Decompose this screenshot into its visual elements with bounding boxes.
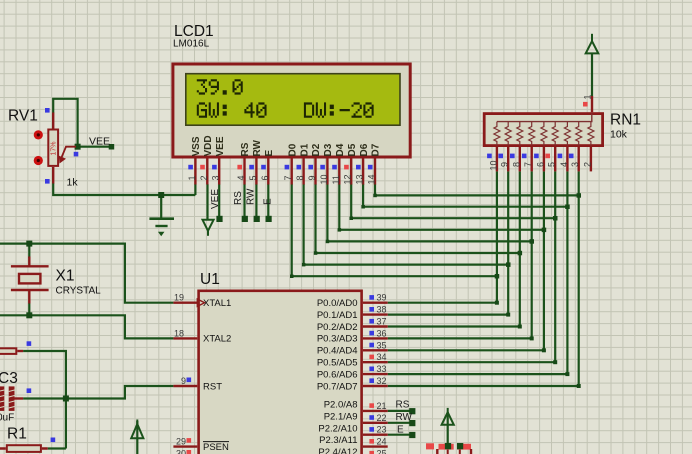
wire column RN pin8 to U1 P0.2 <box>388 171 520 326</box>
svg-text:9: 9 <box>307 175 317 180</box>
svg-text:4: 4 <box>559 162 569 167</box>
node bottom component junction 2 (over pad) <box>457 443 463 449</box>
svg-text:RS: RS <box>396 400 410 411</box>
svg-text:XTAL1: XTAL1 <box>203 298 231 309</box>
svg-text:8: 8 <box>511 162 521 167</box>
svg-text:XTAL2: XTAL2 <box>203 334 231 345</box>
U1 pin9 state square <box>187 378 192 383</box>
node staircase junction D1 <box>506 262 511 267</box>
node terminal E at U1 P2.2 <box>409 432 415 438</box>
wire column RN pin6 to U1 P0.4 <box>388 171 544 350</box>
node P0.7 corner <box>577 384 581 388</box>
svg-text:R1: R1 <box>7 426 27 443</box>
wire D7 LCD pin14 to column RN pin3 <box>375 184 579 195</box>
node staircase junction D0 <box>495 274 500 279</box>
node D6 corner <box>361 205 365 209</box>
svg-text:P2.3/A11: P2.3/A11 <box>319 435 357 446</box>
svg-text:9: 9 <box>500 162 510 167</box>
node ground junction on rail <box>158 192 164 198</box>
svg-text:24: 24 <box>377 437 387 447</box>
wire column RN pin7 to U1 P0.3 <box>388 171 532 338</box>
U1 right pin stubs <box>363 303 388 447</box>
wire D2 LCD pin9 to column RN pin8 <box>316 184 520 253</box>
svg-text:12: 12 <box>343 174 353 184</box>
svg-text:34: 34 <box>377 352 387 362</box>
LCD pin name labels rotated <box>191 135 382 156</box>
svg-text:10k: 10k <box>610 129 628 141</box>
wire LCD pin2 down to VEE power arrow <box>206 184 208 220</box>
svg-text:RW: RW <box>246 188 257 205</box>
microcontroller U1 <box>197 271 361 454</box>
wire D6 LCD pin13 to column RN pin4 <box>363 184 567 207</box>
svg-text:RN1: RN1 <box>610 112 641 129</box>
wire LCD pin5 RW down to terminal <box>255 184 257 219</box>
wire U1 P2.2 to E terminal <box>388 434 412 436</box>
svg-text:9: 9 <box>181 376 186 386</box>
svg-text:6: 6 <box>535 162 545 167</box>
crystal X1 <box>11 257 101 304</box>
node D1 corner <box>302 263 306 267</box>
node terminal LCD pin3 VEE <box>216 216 222 222</box>
svg-text:13: 13 <box>355 174 365 184</box>
node terminal RS below LCD <box>242 216 248 222</box>
RN1 bottom pin stubs <box>497 147 591 171</box>
wire LCD pin6 E down to terminal <box>267 184 269 219</box>
power arrow near U1 bottom-left <box>131 420 143 439</box>
svg-text:VEE: VEE <box>89 136 110 148</box>
svg-text:D4: D4 <box>335 143 346 156</box>
svg-text:P0.2/AD2: P0.2/AD2 <box>317 322 358 333</box>
svg-text:39: 39 <box>377 293 387 303</box>
svg-text:38: 38 <box>377 305 387 315</box>
node P0.2 corner <box>518 325 522 329</box>
LCD pin numbers rotated <box>187 174 377 184</box>
node staircase junction D5 <box>553 216 558 221</box>
node terminal VEE near pot <box>109 144 115 150</box>
node bottom component junction 2 <box>457 443 463 449</box>
resistor (left edge, above C3) <box>0 341 31 354</box>
svg-text:2: 2 <box>582 162 592 167</box>
U1 PSEN overline <box>203 441 229 443</box>
node staircase junction D6 <box>565 205 570 210</box>
node crystal bottom junction <box>26 312 32 318</box>
svg-text:D3: D3 <box>323 143 334 156</box>
svg-text:P2.1/A9: P2.1/A9 <box>324 411 358 422</box>
svg-text:C3: C3 <box>0 370 18 387</box>
node bottom component junction 1 <box>445 443 451 449</box>
node staircase junction D3 <box>530 239 535 244</box>
wire VEE terminal from pot wiper junction <box>78 146 111 148</box>
svg-text:VEE: VEE <box>210 189 221 209</box>
node P0.4 corner <box>542 348 546 352</box>
node staircase junction D2 <box>518 251 523 256</box>
svg-text:7: 7 <box>283 175 293 180</box>
svg-text:P2.2/A10: P2.2/A10 <box>318 423 357 434</box>
svg-text:11: 11 <box>331 175 341 184</box>
svg-text:P0.6/AD6: P0.6/AD6 <box>317 369 358 380</box>
svg-text:18: 18 <box>174 328 184 338</box>
power arrow above RN1 pin1 <box>586 34 599 54</box>
svg-text:D6: D6 <box>359 143 370 156</box>
RN1 pin1 top stub <box>591 96 593 112</box>
svg-text:23: 23 <box>377 425 387 435</box>
svg-text:U1: U1 <box>200 271 220 288</box>
wire LCD pin1 down to rail <box>194 184 196 195</box>
wire C3 to RST <box>23 386 173 399</box>
node D2 corner <box>314 251 318 255</box>
wire column RN pin10 to U1 P0.0 <box>388 171 497 302</box>
node P0.3 corner <box>530 336 534 340</box>
wire U1 P2.1 to RW terminal <box>388 422 412 424</box>
wire column RN pin3 to U1 P0.7 <box>388 171 579 386</box>
power arrow above bottom component <box>442 408 454 425</box>
wire D5 LCD pin12 to column RN pin5 <box>351 184 555 218</box>
svg-text:RW: RW <box>252 139 263 156</box>
svg-text:29: 29 <box>176 437 186 447</box>
svg-text:E: E <box>263 198 274 205</box>
svg-text:32: 32 <box>377 376 387 386</box>
wire top resistor to vertical bus <box>23 351 66 449</box>
svg-text:RW: RW <box>396 412 413 423</box>
RN1 pin state squares <box>487 154 573 159</box>
wire D1 LCD pin8 to column RN pin9 <box>304 184 509 265</box>
bottom component (cut off at bottom edge) <box>426 443 471 454</box>
node bottom component junction 1 (over pad) <box>445 443 451 449</box>
U1 pin30 state square <box>187 450 192 454</box>
U1 left pin numbers <box>174 293 186 454</box>
svg-text:3: 3 <box>211 175 221 180</box>
node D5 corner <box>350 217 354 221</box>
svg-text:30: 30 <box>176 449 186 454</box>
svg-text:14: 14 <box>367 174 377 184</box>
svg-text:1k: 1k <box>67 177 79 189</box>
node P0.6 corner <box>565 372 569 376</box>
svg-text:10: 10 <box>319 174 329 184</box>
wire crystal top rail <box>0 244 173 303</box>
svg-text:D2: D2 <box>311 143 322 156</box>
U1 right pin state squares <box>369 295 374 454</box>
RN1 pin numbers rotated <box>488 160 592 170</box>
svg-text:7: 7 <box>523 162 533 167</box>
wire column RN pin9 to U1 P0.1 <box>388 171 509 314</box>
wire crystal bottom stub green part <box>28 303 30 315</box>
node D0 corner <box>290 275 294 279</box>
svg-text:22: 22 <box>377 413 387 423</box>
wire D3 LCD pin10 to column RN pin7 <box>327 184 531 241</box>
svg-text:P0.4/AD4: P0.4/AD4 <box>317 346 358 357</box>
resistor network RN1 <box>484 112 641 146</box>
U1 right pin names <box>317 298 358 454</box>
wire RV1 top loop <box>53 99 77 147</box>
wire crystal bottom rail to XTAL2 <box>0 315 173 338</box>
svg-text:D7: D7 <box>371 143 382 156</box>
wire crystal top stub green part <box>28 244 30 258</box>
node terminal E below LCD <box>266 216 272 222</box>
node terminal RS at U1 P2.0 <box>409 408 415 414</box>
wire power arrow near U1 bottom <box>136 421 138 454</box>
svg-text:VDD: VDD <box>203 135 214 156</box>
wire D0 LCD pin7 to column RN pin10 <box>292 184 497 276</box>
svg-text:19: 19 <box>174 293 184 303</box>
svg-text:VEE: VEE <box>215 136 226 156</box>
U1 left pin names <box>203 298 231 453</box>
svg-text:E: E <box>264 150 275 157</box>
node terminal RW below LCD <box>254 216 260 222</box>
node RV1 pin squares <box>45 108 78 184</box>
RN1 pin1 state square <box>583 102 588 107</box>
svg-text:LCD1: LCD1 <box>174 23 214 40</box>
svg-text:17%: 17% <box>51 141 58 155</box>
svg-text:PSEN: PSEN <box>203 442 229 453</box>
svg-text:1: 1 <box>583 94 593 99</box>
power VEE down-arrow under LCD pin2 <box>203 220 214 236</box>
wire LCD pin3 down to terminal <box>218 184 220 219</box>
svg-text:4: 4 <box>236 175 246 180</box>
U1 pin29 state square <box>187 438 192 443</box>
svg-text:P0.7/AD7: P0.7/AD7 <box>317 381 358 392</box>
LCD pin stubs <box>195 159 375 185</box>
node D3 corner <box>326 240 330 244</box>
wire R1 right terminal <box>48 447 66 449</box>
svg-text:1: 1 <box>187 175 197 180</box>
node P0.1 corner <box>506 313 510 317</box>
svg-text:25: 25 <box>377 449 387 454</box>
wire ground stem <box>160 195 162 218</box>
svg-text:LM016L: LM016L <box>173 39 210 50</box>
svg-text:10: 10 <box>488 160 498 170</box>
potentiometer RV1 <box>8 108 78 189</box>
svg-text:D5: D5 <box>347 143 358 156</box>
wire U1 P2.0 to RS terminal <box>388 410 412 412</box>
svg-text:X1: X1 <box>56 268 75 285</box>
svg-text:VSS: VSS <box>191 136 202 156</box>
node D7 corner <box>373 194 377 198</box>
svg-text:RS: RS <box>233 191 244 205</box>
svg-text:3: 3 <box>570 162 580 167</box>
svg-text:8: 8 <box>295 175 305 180</box>
wire power arrow bottom component <box>447 412 449 446</box>
node staircase junction D7 <box>577 193 582 198</box>
svg-text:P2.4/A12: P2.4/A12 <box>318 447 357 454</box>
svg-text:5: 5 <box>248 175 258 180</box>
svg-text:0uF: 0uF <box>0 413 14 424</box>
wire column RN pin5 to U1 P0.5 <box>388 171 556 362</box>
wire RV1 bottom to ground rail <box>53 183 195 195</box>
svg-text:35: 35 <box>377 340 387 350</box>
capacitor C3 <box>0 370 31 424</box>
svg-text:5: 5 <box>547 162 557 167</box>
svg-text:RV1: RV1 <box>8 108 38 125</box>
LCD pin state squares <box>188 165 372 170</box>
svg-text:21: 21 <box>377 401 387 411</box>
svg-text:P2.0/A8: P2.0/A8 <box>324 400 358 411</box>
LCD LCD1 LM016L <box>173 23 410 157</box>
node D4 corner <box>338 228 342 232</box>
node P0.0 corner <box>495 301 499 305</box>
svg-text:E: E <box>397 424 404 435</box>
node pot wiper junction <box>75 144 81 150</box>
node staircase junction D4 <box>542 228 547 233</box>
svg-text:D1: D1 <box>299 143 310 156</box>
wire column RN pin4 to U1 P0.6 <box>388 171 568 374</box>
wire RN pin1 up to power arrow <box>591 53 593 96</box>
wire LCD pin4 RS down to terminal <box>243 184 245 219</box>
svg-text:P0.0/AD0: P0.0/AD0 <box>317 298 358 309</box>
U1 left pin stubs <box>173 303 197 447</box>
wire D4 LCD pin11 to column RN pin6 <box>339 184 544 230</box>
svg-text:RST: RST <box>203 381 222 392</box>
node P0.5 corner <box>553 360 557 364</box>
svg-text:6: 6 <box>260 175 270 180</box>
svg-text:2: 2 <box>199 175 209 180</box>
resistor R1 <box>0 426 55 452</box>
node terminal RW at U1 P2.1 <box>409 420 415 426</box>
svg-text:RS: RS <box>240 142 251 156</box>
node C3 RST junction <box>63 396 69 402</box>
svg-text:P0.5/AD5: P0.5/AD5 <box>317 358 358 369</box>
svg-text:D0: D0 <box>287 143 298 156</box>
svg-text:37: 37 <box>377 317 387 327</box>
ground <box>149 219 174 236</box>
svg-text:33: 33 <box>377 364 387 374</box>
U1 right pin numbers <box>377 293 387 454</box>
node crystal top junction <box>26 241 32 247</box>
svg-text:36: 36 <box>377 328 387 338</box>
svg-text:P0.3/AD3: P0.3/AD3 <box>317 334 358 345</box>
svg-text:P0.1/AD1: P0.1/AD1 <box>317 310 358 321</box>
svg-text:CRYSTAL: CRYSTAL <box>56 286 102 297</box>
